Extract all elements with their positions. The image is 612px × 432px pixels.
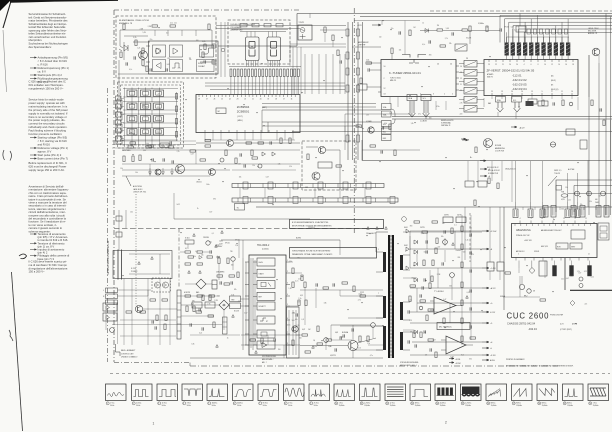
resistor R psu row 2 xyxy=(123,156,125,162)
svg-text:LADE ELKO: LADE ELKO xyxy=(133,188,143,191)
ZF pin ticks bottom xyxy=(491,93,493,96)
svg-text:15,6kHz: 15,6kHz xyxy=(542,405,548,407)
svg-text:-E 15V: -E 15V xyxy=(490,312,496,314)
relay coil circle 1 xyxy=(155,282,161,288)
resistor R below IC 2 xyxy=(246,142,252,144)
svg-text:15,6kHz: 15,6kHz xyxy=(390,405,396,407)
parts row above transformer xyxy=(304,282,306,288)
svg-text:50 Hz: 50 Hz xyxy=(314,405,318,407)
svg-text:CHASSIS 29701-042.04: CHASSIS 29701-042.04 xyxy=(507,322,536,326)
wire step bracket bed einheit xyxy=(116,344,121,356)
psu left extra parts xyxy=(186,306,188,312)
svg-text:15,6kHz: 15,6kHz xyxy=(440,405,446,407)
svg-text:47u: 47u xyxy=(295,319,298,321)
IC U601 TDA4600 box xyxy=(249,255,286,355)
arrow labels UCSB xyxy=(449,358,454,360)
SCL box under ZF xyxy=(512,97,522,103)
svg-text:30Vss: 30Vss xyxy=(415,402,420,404)
waveform oscillogram 5 xyxy=(207,384,228,401)
circle pincushion xyxy=(519,284,524,289)
svg-text:and R 616: and R 616 xyxy=(38,143,51,147)
small boxes left psu xyxy=(116,216,122,221)
keyboard dashed box xyxy=(118,82,184,148)
opamp A1 IR xyxy=(153,45,166,57)
resistor R622 xyxy=(298,300,300,306)
capacitor C620 xyxy=(295,313,297,316)
wire b+ drop right xyxy=(587,161,589,208)
svg-text:D661: D661 xyxy=(404,227,408,229)
wire chopper collector xyxy=(331,324,371,326)
svg-text:(CTI/ST (EXP.): (CTI/ST (EXP.) xyxy=(560,329,572,331)
svg-text:12: 12 xyxy=(551,64,553,66)
svg-text:22: 22 xyxy=(495,64,497,66)
connector column pair left of tuner xyxy=(347,22,349,160)
tuner pin ticks xyxy=(456,65,459,67)
resistor under ZF xyxy=(542,100,544,106)
resistor R tba 1 xyxy=(428,339,434,341)
wire right column drops 2 xyxy=(598,55,600,63)
svg-text:1k2: 1k2 xyxy=(308,329,311,331)
svg-text:COLOR TV/E: COLOR TV/E xyxy=(495,151,504,153)
svg-text:27: 27 xyxy=(206,99,208,101)
capacitor C2 IR xyxy=(133,56,135,59)
driver stage dashed box xyxy=(302,141,356,190)
diode D651 xyxy=(414,240,418,244)
scan artifact top edge bar xyxy=(10,0,118,3)
svg-text:9: 9 xyxy=(310,403,311,405)
svg-text:there is no secondary voltage: there is no secondary voltage or xyxy=(29,115,67,119)
transistor T601 xyxy=(292,326,298,332)
svg-text:BCL: BCL xyxy=(383,132,386,134)
thick yoke wire xyxy=(570,289,612,291)
svg-text:400: 400 xyxy=(595,199,598,201)
svg-text:80Vss: 80Vss xyxy=(491,402,496,404)
resistor R psu row 3 xyxy=(168,146,174,148)
waveform oscillogram 9 xyxy=(309,384,330,401)
svg-text:12: 12 xyxy=(460,78,462,80)
svg-text:individually and check operati: individually and check operation. xyxy=(29,125,68,129)
svg-text:14: 14 xyxy=(460,66,462,68)
wire LED top xyxy=(232,29,288,31)
resistor R driver 2 xyxy=(336,165,342,167)
svg-text:8,2k: 8,2k xyxy=(461,355,464,357)
svg-text:10k: 10k xyxy=(239,176,242,178)
boxes right of diamond xyxy=(230,296,241,302)
extra arrows mid right xyxy=(480,160,486,162)
svg-text:(EXP.): (EXP.) xyxy=(572,324,577,326)
wire module cluster xyxy=(309,14,311,19)
pushbutton S10 xyxy=(127,129,137,136)
wire bottom cluster xyxy=(143,308,177,310)
svg-text:B+: B+ xyxy=(470,157,472,159)
svg-text:1,6: 1,6 xyxy=(313,340,315,342)
waveform oscillogram 11 xyxy=(360,384,381,401)
svg-text:+C 45V: +C 45V xyxy=(490,268,497,270)
svg-text:+UC5B: +UC5B xyxy=(455,359,460,361)
sync components left of tba xyxy=(413,332,415,338)
wires zf bottom region xyxy=(483,98,485,107)
svg-text:28: 28 xyxy=(198,99,200,101)
mid left parts cluster 2 xyxy=(235,158,237,164)
svg-text:560: 560 xyxy=(463,252,466,254)
TDA4600 pin stubs left xyxy=(245,261,249,263)
svg-text:0,1: 0,1 xyxy=(454,225,456,227)
vertical connector strip psu xyxy=(177,290,181,339)
svg-text:2x22: 2x22 xyxy=(340,337,344,339)
svg-text:160Vss: 160Vss xyxy=(212,402,218,404)
svg-text:SF126: SF126 xyxy=(504,26,509,28)
transistor T610 below IC xyxy=(227,140,234,147)
IC U1 pin ticks top xyxy=(198,95,200,98)
resistor R4 IR xyxy=(142,48,144,54)
wire bottom mid xyxy=(296,334,302,336)
warning box live chassis 1 xyxy=(290,220,384,229)
keyboard underside wires xyxy=(112,140,196,142)
wire IC right bus verticals xyxy=(304,54,306,94)
svg-text:20: 20 xyxy=(437,64,439,66)
svg-text:15,6kHz: 15,6kHz xyxy=(516,405,522,407)
resistor R606 xyxy=(224,283,230,285)
waveform oscillogram 16 xyxy=(486,384,507,401)
svg-text:K.-TUNER 29504-101.01: K.-TUNER 29504-101.01 xyxy=(389,71,421,75)
arrow +A 12V xyxy=(511,126,517,128)
svg-text:750: 750 xyxy=(230,251,233,253)
svg-text:4,7u: 4,7u xyxy=(178,67,181,69)
I2C bus pair right xyxy=(392,116,612,118)
ground symbols mid left xyxy=(149,168,151,172)
left edge component column xyxy=(116,96,122,101)
svg-text:3: 3 xyxy=(158,403,159,405)
svg-text:23: 23 xyxy=(488,64,490,66)
transistor T audio top right xyxy=(592,48,600,56)
service text german arrow list xyxy=(30,57,37,59)
resistor R604 vert xyxy=(218,258,220,264)
schematic boundary dash top xyxy=(114,9,300,11)
svg-text:6,8: 6,8 xyxy=(425,355,427,357)
svg-text:11: 11 xyxy=(585,218,587,220)
svg-text:BILD B.-KOR. 02: BILD B.-KOR. 02 xyxy=(487,167,499,169)
svg-text:80Vss: 80Vss xyxy=(567,402,572,404)
svg-text:0,47: 0,47 xyxy=(433,340,436,342)
vertical pair between IR and LED xyxy=(220,22,222,77)
secondary vertical wires xyxy=(461,215,463,345)
test point circle chopper 2 xyxy=(371,323,376,328)
svg-text:25: 25 xyxy=(491,91,493,93)
svg-text:12: 12 xyxy=(563,218,565,220)
svg-text:1 Vss: 1 Vss xyxy=(593,402,597,404)
box SAW filter xyxy=(358,84,367,90)
svg-text:1N4001: 1N4001 xyxy=(412,278,418,280)
svg-text:0,47: 0,47 xyxy=(302,329,305,331)
extra bottom mid wires xyxy=(241,334,300,336)
wire second top horizontal xyxy=(360,16,612,18)
ZF underside pin labels xyxy=(491,96,493,100)
svg-text:ACHTUNG: ACHTUNG xyxy=(133,185,142,188)
wire right column xyxy=(588,55,590,97)
svg-text:18: 18 xyxy=(538,403,540,405)
wire mid stub xyxy=(344,126,346,132)
svg-text:1,2k: 1,2k xyxy=(466,240,469,242)
svg-text:1: 1 xyxy=(107,403,108,405)
svg-text:J 2-BUS: J 2-BUS xyxy=(420,121,427,123)
svg-text:CUC 2600: CUC 2600 xyxy=(507,312,550,321)
box ew drive xyxy=(465,181,474,187)
diode box MV 2 xyxy=(103,313,117,321)
wire transformer taps left xyxy=(376,251,383,253)
svg-text:50 Hz: 50 Hz xyxy=(212,405,216,407)
svg-text:15: 15 xyxy=(462,403,464,405)
svg-text:50 Hz: 50 Hz xyxy=(110,405,114,407)
svg-text:20: 20 xyxy=(260,99,262,101)
label box MC TBA950C xyxy=(437,323,470,330)
electrolytic C below IC xyxy=(269,141,271,144)
diode bridge cluster xyxy=(262,152,266,156)
svg-text:14: 14 xyxy=(571,91,573,93)
svg-text:2CB9501: 2CB9501 xyxy=(237,110,250,114)
svg-text:RR-2: RR-2 xyxy=(524,296,528,298)
svg-text:1,2k: 1,2k xyxy=(289,166,292,168)
svg-text:390: 390 xyxy=(429,55,432,57)
pushbutton S6 xyxy=(154,103,164,110)
svg-text:15: 15 xyxy=(531,91,533,93)
svg-text:4,7u: 4,7u xyxy=(370,355,373,357)
feedback components under TDA xyxy=(410,285,416,287)
connector ladder rect psu mid xyxy=(223,317,228,334)
heater circuit extra xyxy=(422,231,428,233)
svg-text:0,68: 0,68 xyxy=(335,332,338,334)
svg-text:500Vss: 500Vss xyxy=(237,402,243,404)
resistor R7 IR bottom xyxy=(146,66,148,72)
resistor R338 xyxy=(337,50,339,56)
wire psu into tda xyxy=(242,240,244,258)
top boundary dashed right xyxy=(430,10,612,12)
svg-text:1N4001: 1N4001 xyxy=(456,250,462,252)
svg-text:47u: 47u xyxy=(162,146,165,148)
extra wires mid left area xyxy=(122,169,230,171)
video components row xyxy=(356,125,362,127)
wire LED segment leads xyxy=(246,61,248,67)
svg-text:6,8: 6,8 xyxy=(302,319,304,321)
svg-text:631 entladen sein! Netzspan-: 631 entladen sein! Netzspan- xyxy=(29,83,64,87)
wire left column feeds xyxy=(290,43,346,45)
antenna input symbol xyxy=(402,55,426,64)
wire deflection bottom xyxy=(503,296,540,298)
scan artifact paren mark xyxy=(19,254,27,259)
pushbutton S1 xyxy=(127,90,137,97)
svg-text:-162.03/.05: -162.03/.05 xyxy=(512,83,527,87)
svg-text:47u: 47u xyxy=(209,241,212,243)
svg-text:1,7k: 1,7k xyxy=(133,37,136,39)
svg-text:ZF-VERST. 29504-152.01/.02/.0: ZF-VERST. 29504-152.01/.02/.04/.05 xyxy=(487,69,535,73)
svg-text:-007.09: -007.09 xyxy=(524,240,532,242)
vertical joins secondary xyxy=(409,231,411,268)
wire transformer taps right xyxy=(403,254,410,256)
svg-text:5,5MHz: 5,5MHz xyxy=(528,102,534,104)
svg-text:Fault finding scheme if blocki: Fault finding scheme if blocking xyxy=(29,129,67,133)
svg-text:GL: GL xyxy=(180,97,182,99)
bus arrow ZF down 1 xyxy=(497,102,504,112)
circle psu bottom xyxy=(110,328,115,333)
chopper secondary winding bar 3 xyxy=(400,332,403,350)
svg-text:1,2k: 1,2k xyxy=(389,113,392,115)
svg-text:-112.01: -112.01 xyxy=(512,74,522,78)
svg-text:TY 40164: TY 40164 xyxy=(434,291,444,293)
svg-text:(CUT): (CUT) xyxy=(237,116,243,118)
resistor R6 IR xyxy=(142,60,144,66)
pushbutton S7 xyxy=(127,116,137,123)
svg-text:Service hints for switch-mode: Service hints for switch-mode xyxy=(29,98,65,102)
svg-text:10: 10 xyxy=(544,64,546,66)
wire bus above IC horizontals xyxy=(205,82,345,84)
svg-text:AUSG: AUSG xyxy=(490,359,495,362)
scan artifact crease line lower xyxy=(12,272,23,431)
fuse SI601 xyxy=(185,240,194,244)
svg-text:15,6kHz: 15,6kHz xyxy=(415,405,421,407)
svg-text:0,22: 0,22 xyxy=(591,276,594,278)
svg-text:10k: 10k xyxy=(201,255,204,257)
resistor R mains 2 xyxy=(251,150,253,156)
wire mains row xyxy=(122,149,300,151)
cap row right of transformer xyxy=(407,310,409,313)
svg-text:MEM: MEM xyxy=(143,106,148,108)
svg-text:1,5k: 1,5k xyxy=(367,343,370,345)
resistor ladder column R30-R33 xyxy=(176,92,178,141)
small parts IR left xyxy=(120,52,122,58)
wire ew area xyxy=(489,271,491,280)
svg-text:11: 11 xyxy=(361,403,363,405)
svg-text:22n: 22n xyxy=(561,279,564,281)
svg-text:2: 2 xyxy=(133,403,134,405)
svg-text:POWER: POWER xyxy=(131,271,138,273)
svg-text:17: 17 xyxy=(551,91,553,93)
resistor R602 xyxy=(197,251,203,253)
svg-text:15k: 15k xyxy=(193,256,196,258)
svg-text:Start pulse (Pin 4) 2: Start pulse (Pin 4) 2 xyxy=(38,153,62,157)
dashed vertical deflection xyxy=(469,213,471,262)
warning triangle ew xyxy=(466,296,469,299)
components below ablenkung dark coil 3 xyxy=(588,266,592,277)
svg-text:< 8 V, starting via Di 619: < 8 V, starting via Di 619 xyxy=(38,139,68,143)
waveform oscillogram 8 xyxy=(284,384,305,401)
svg-text:90 Vss: 90 Vss xyxy=(263,402,268,404)
bridge rectifier diamond xyxy=(196,279,206,289)
resistor bottom mid 2 xyxy=(359,336,361,342)
wire ablenkung tops xyxy=(515,161,517,202)
wire psu sec upper xyxy=(300,289,383,291)
svg-text:2,7k: 2,7k xyxy=(460,103,463,105)
svg-text:0,22: 0,22 xyxy=(199,332,202,334)
left psu wire stubs xyxy=(117,302,119,344)
svg-text:power supply: operate set with: power supply: operate set with xyxy=(29,101,66,105)
svg-text:15,6kHz: 15,6kHz xyxy=(593,405,599,407)
svg-text:10k: 10k xyxy=(441,236,444,238)
tuner takt resistor xyxy=(391,48,393,54)
svg-text:TDA 4600-2: TDA 4600-2 xyxy=(257,244,270,247)
svg-text:17: 17 xyxy=(513,403,515,405)
svg-text:2,7k: 2,7k xyxy=(445,38,448,40)
svg-text:1,2k: 1,2k xyxy=(568,200,571,202)
resistor R ty input xyxy=(420,300,426,302)
svg-text:0,1: 0,1 xyxy=(212,233,214,235)
chopper primary winding bar 1 xyxy=(383,252,386,272)
svg-text:50 Hz: 50 Hz xyxy=(162,405,166,407)
circle thermistor xyxy=(231,257,235,261)
wire extra secondary xyxy=(403,277,414,279)
svg-text:390: 390 xyxy=(410,226,413,228)
svg-text:SF126: SF126 xyxy=(225,243,230,245)
capacitor C602 big xyxy=(212,280,217,289)
svg-text:TWT: TWT xyxy=(231,299,234,301)
secondary extra parts column xyxy=(461,226,463,232)
svg-text:(CTI: (CTI xyxy=(560,324,564,326)
capacitor C6 IR xyxy=(203,60,205,63)
seven segment display right xyxy=(267,37,281,61)
relay coil circle 2 xyxy=(163,282,169,288)
svg-text:22: 22 xyxy=(244,99,246,101)
svg-text:220: 220 xyxy=(438,247,441,249)
wire long mid horizontal lower xyxy=(256,206,612,208)
svg-text:1,05k: 1,05k xyxy=(219,241,223,243)
small box under ZF 1 xyxy=(528,99,537,104)
svg-text:50 Hz: 50 Hz xyxy=(187,405,191,407)
svg-text:15,6kHz: 15,6kHz xyxy=(465,405,471,407)
svg-text:connect the secondary circuits: connect the secondary circuits xyxy=(29,122,66,126)
svg-text:SCL: SCL xyxy=(423,98,426,100)
svg-text:2,5Vss: 2,5Vss xyxy=(136,402,141,404)
svg-text:des Sperrwandlers:: des Sperrwandlers: xyxy=(29,45,52,49)
svg-text:+F 150V: +F 150V xyxy=(490,231,497,233)
svg-text:BC238: BC238 xyxy=(234,311,239,313)
svg-text:90Vss: 90Vss xyxy=(516,402,521,404)
svg-text:Before replacement of IC 601,: Before replacement of IC 601, C xyxy=(29,161,68,165)
svg-text:8,2k: 8,2k xyxy=(570,276,573,278)
secondary rc row 3 xyxy=(414,330,418,334)
dashed primary boundary horizontal xyxy=(114,228,384,230)
svg-text:10: 10 xyxy=(335,403,337,405)
boxes LTD xyxy=(443,217,453,223)
resistor R601 xyxy=(185,251,191,253)
TDA4600 internal block START xyxy=(257,269,275,277)
resistor R653 xyxy=(423,260,425,266)
TDA4600 internal block SCHMITT xyxy=(257,302,275,310)
mains transformer winding lines xyxy=(117,250,119,280)
svg-text:0,22: 0,22 xyxy=(584,271,587,273)
svg-text:3 Vss: 3 Vss xyxy=(187,402,191,404)
svg-text:1,5k: 1,5k xyxy=(409,300,412,302)
waveform row underlabels xyxy=(106,407,609,409)
diagonal wire audio xyxy=(548,176,557,186)
bus line long y131 xyxy=(292,131,612,133)
svg-text:22n: 22n xyxy=(379,37,382,39)
svg-text:15,6kHz: 15,6kHz xyxy=(364,405,370,407)
svg-text:8,2k: 8,2k xyxy=(191,304,194,306)
svg-text:-162.01/.02: -162.01/.02 xyxy=(512,78,527,82)
waveform oscillogram 4 xyxy=(182,384,203,401)
svg-text:Si 601: Si 601 xyxy=(185,238,190,240)
driver transformer box xyxy=(287,307,300,358)
I2C bus extra lines xyxy=(262,103,376,105)
svg-text:2,7k: 2,7k xyxy=(358,348,361,350)
IR bottom rail xyxy=(118,73,214,75)
svg-text:25: 25 xyxy=(221,99,223,101)
svg-text:220: 220 xyxy=(460,114,463,116)
svg-text:N. 250: N. 250 xyxy=(131,268,136,270)
svg-text:+UC5M: +UC5M xyxy=(455,363,461,365)
svg-text:0,33/TW: 0,33/TW xyxy=(330,355,336,357)
resistor R deflection bottom xyxy=(540,299,546,301)
svg-text:SF126: SF126 xyxy=(235,239,240,241)
svg-text:15,6kHz: 15,6kHz xyxy=(491,405,497,407)
